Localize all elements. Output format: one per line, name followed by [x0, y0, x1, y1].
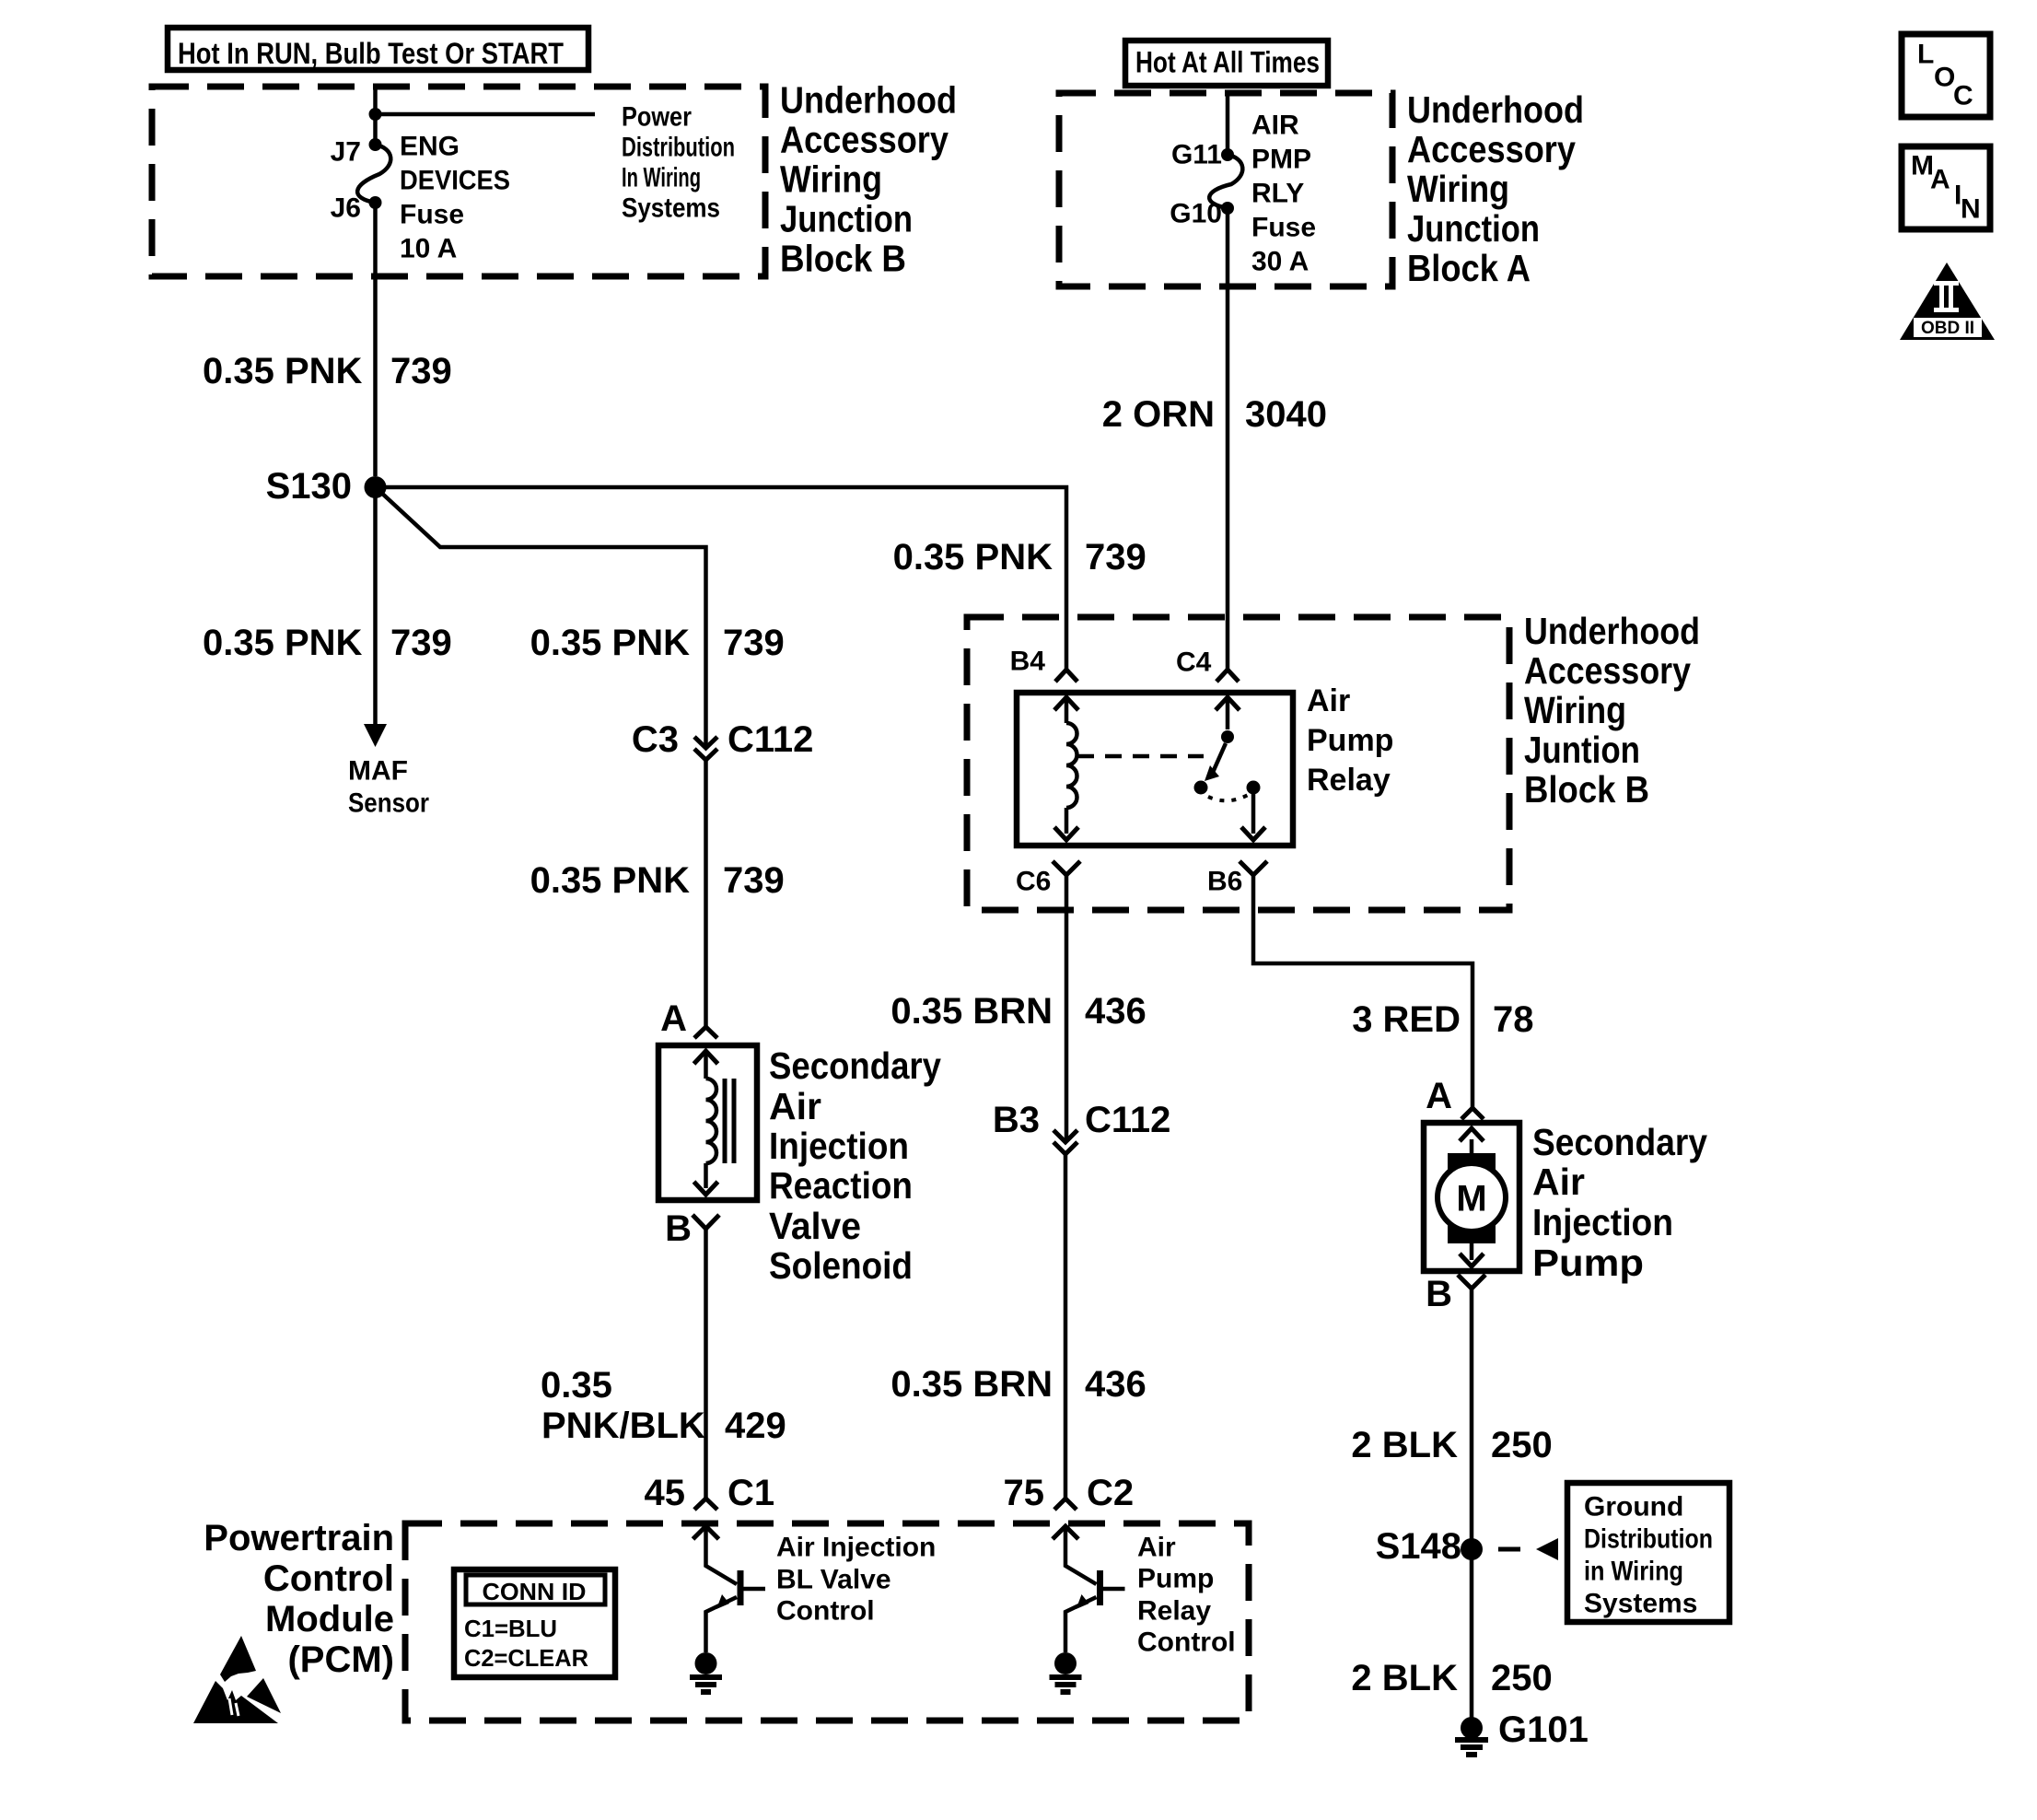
svg-text:Pump: Pump: [1532, 1242, 1644, 1284]
svg-text:Relay: Relay: [1137, 1596, 1211, 1627]
svg-text:PMP: PMP: [1251, 145, 1311, 175]
svg-text:250: 250: [1491, 1658, 1553, 1698]
svg-text:0.35 PNK: 0.35 PNK: [203, 623, 363, 663]
svg-text:A: A: [660, 998, 687, 1039]
svg-text:2 BLK: 2 BLK: [1351, 1658, 1458, 1698]
svg-text:Distribution: Distribution: [622, 133, 735, 163]
svg-text:436: 436: [1085, 991, 1147, 1032]
svg-text:G11: G11: [1171, 140, 1222, 170]
svg-text:Pump: Pump: [1137, 1564, 1214, 1594]
svg-text:Secondary: Secondary: [1532, 1121, 1707, 1163]
svg-text:O: O: [1934, 63, 1955, 93]
svg-text:Air: Air: [1137, 1533, 1176, 1563]
svg-text:Accessory: Accessory: [1407, 128, 1576, 170]
svg-text:3 RED: 3 RED: [1352, 999, 1461, 1040]
svg-text:Pump: Pump: [1307, 723, 1393, 758]
svg-text:B4: B4: [1010, 647, 1046, 677]
svg-text:AIR: AIR: [1251, 111, 1299, 141]
svg-text:G101: G101: [1498, 1709, 1589, 1750]
svg-text:0.35 PNK: 0.35 PNK: [203, 351, 363, 391]
svg-text:MAF: MAF: [348, 756, 408, 787]
svg-text:C6: C6: [1016, 867, 1051, 897]
svg-text:Reaction: Reaction: [769, 1164, 913, 1207]
svg-text:Control: Control: [1137, 1627, 1236, 1658]
svg-text:B: B: [665, 1208, 692, 1249]
svg-text:G10: G10: [1170, 199, 1222, 229]
svg-text:Accessory: Accessory: [780, 119, 949, 161]
svg-text:C2: C2: [1087, 1473, 1134, 1513]
svg-text:Injection: Injection: [769, 1125, 909, 1167]
svg-text:Hot In RUN, Bulb Test Or START: Hot In RUN, Bulb Test Or START: [178, 37, 564, 70]
svg-text:2 BLK: 2 BLK: [1351, 1425, 1458, 1465]
svg-text:C112: C112: [727, 719, 813, 760]
svg-text:Air: Air: [1532, 1161, 1585, 1203]
svg-text:C: C: [1953, 81, 1973, 111]
svg-text:Block B: Block B: [780, 238, 906, 280]
svg-text:Systems: Systems: [622, 193, 720, 224]
svg-text:Underhood: Underhood: [780, 79, 957, 122]
svg-text:Distribution: Distribution: [1584, 1524, 1713, 1555]
svg-text:78: 78: [1493, 999, 1534, 1040]
svg-text:0.35 BRN: 0.35 BRN: [890, 1364, 1053, 1405]
svg-text:Relay: Relay: [1307, 763, 1391, 798]
svg-text:739: 739: [723, 623, 785, 663]
svg-text:Fuse: Fuse: [1251, 213, 1316, 243]
svg-text:Powertrain: Powertrain: [204, 1518, 394, 1558]
svg-text:Block B: Block B: [1524, 768, 1649, 811]
svg-text:A: A: [1426, 1076, 1452, 1116]
svg-text:ENG: ENG: [400, 132, 460, 162]
svg-text:Secondary: Secondary: [769, 1044, 941, 1087]
svg-text:Air: Air: [769, 1085, 821, 1127]
svg-text:RLY: RLY: [1251, 179, 1304, 209]
svg-text:Systems: Systems: [1584, 1589, 1697, 1619]
svg-text:In Wiring: In Wiring: [622, 163, 701, 193]
svg-text:2 ORN: 2 ORN: [1102, 394, 1215, 435]
svg-text:429: 429: [725, 1406, 786, 1446]
svg-text:Accessory: Accessory: [1524, 649, 1691, 692]
svg-text:250: 250: [1491, 1425, 1553, 1465]
svg-text:Power: Power: [622, 102, 692, 133]
svg-text:C4: C4: [1176, 647, 1212, 678]
svg-text:S148: S148: [1376, 1526, 1461, 1567]
svg-text:B3: B3: [993, 1100, 1040, 1140]
svg-text:436: 436: [1085, 1364, 1147, 1405]
svg-text:CONN ID: CONN ID: [483, 1578, 587, 1605]
svg-text:Air Injection: Air Injection: [776, 1533, 936, 1563]
svg-text:739: 739: [723, 860, 785, 901]
svg-text:A: A: [1930, 165, 1950, 195]
svg-text:0.35: 0.35: [541, 1365, 612, 1406]
svg-text:75: 75: [1004, 1473, 1045, 1513]
svg-text:OBD II: OBD II: [1921, 319, 1974, 338]
svg-text:BL Valve: BL Valve: [776, 1565, 891, 1595]
svg-text:Wiring: Wiring: [780, 158, 882, 201]
svg-text:30 A: 30 A: [1251, 247, 1309, 277]
svg-text:C112: C112: [1085, 1100, 1170, 1140]
svg-text:PNK/BLK: PNK/BLK: [541, 1406, 705, 1446]
svg-text:Underhood: Underhood: [1524, 610, 1700, 652]
svg-text:Air: Air: [1307, 683, 1350, 718]
svg-text:Fuse: Fuse: [400, 200, 464, 230]
svg-text:in Wiring: in Wiring: [1584, 1557, 1683, 1587]
svg-text:(PCM): (PCM): [287, 1639, 394, 1680]
svg-text:Injection: Injection: [1532, 1201, 1673, 1243]
svg-text:J7: J7: [331, 137, 361, 168]
svg-text:739: 739: [390, 351, 452, 391]
svg-text:Valve: Valve: [769, 1205, 861, 1247]
svg-text:J6: J6: [331, 193, 361, 224]
svg-text:Solenoid: Solenoid: [769, 1244, 913, 1287]
svg-text:Wiring: Wiring: [1407, 168, 1509, 210]
svg-text:0.35 PNK: 0.35 PNK: [530, 860, 691, 901]
svg-text:3040: 3040: [1245, 394, 1327, 435]
svg-text:10 A: 10 A: [400, 234, 457, 264]
svg-text:C3: C3: [632, 719, 679, 760]
svg-text:S130: S130: [266, 466, 352, 507]
svg-text:Block A: Block A: [1407, 247, 1531, 289]
svg-text:C1: C1: [727, 1473, 774, 1513]
svg-text:739: 739: [1085, 537, 1147, 577]
svg-text:N: N: [1961, 194, 1981, 225]
svg-text:Junction: Junction: [1407, 207, 1540, 250]
svg-text:Control: Control: [263, 1558, 394, 1599]
svg-text:B: B: [1426, 1274, 1452, 1314]
svg-text:C1=BLU: C1=BLU: [464, 1615, 557, 1642]
svg-text:DEVICES: DEVICES: [400, 166, 510, 196]
svg-text:Wiring: Wiring: [1524, 689, 1626, 731]
svg-text:Juntion: Juntion: [1524, 729, 1640, 771]
svg-text:Underhood: Underhood: [1407, 88, 1584, 131]
svg-text:0.35 PNK: 0.35 PNK: [893, 537, 1053, 577]
svg-text:M: M: [1456, 1179, 1486, 1219]
svg-text:0.35 BRN: 0.35 BRN: [890, 991, 1053, 1032]
svg-text:Control: Control: [776, 1596, 875, 1627]
svg-text:Sensor: Sensor: [348, 788, 429, 819]
svg-text:B6: B6: [1207, 867, 1242, 897]
svg-text:L: L: [1917, 40, 1934, 70]
svg-text:0.35 PNK: 0.35 PNK: [530, 623, 691, 663]
svg-text:Module: Module: [265, 1599, 394, 1639]
svg-text:Ground: Ground: [1584, 1492, 1683, 1522]
svg-text:C2=CLEAR: C2=CLEAR: [464, 1644, 588, 1672]
svg-text:Hot At All Times: Hot At All Times: [1135, 46, 1320, 79]
svg-text:45: 45: [645, 1473, 686, 1513]
svg-text:Junction: Junction: [780, 198, 913, 240]
svg-text:739: 739: [390, 623, 452, 663]
